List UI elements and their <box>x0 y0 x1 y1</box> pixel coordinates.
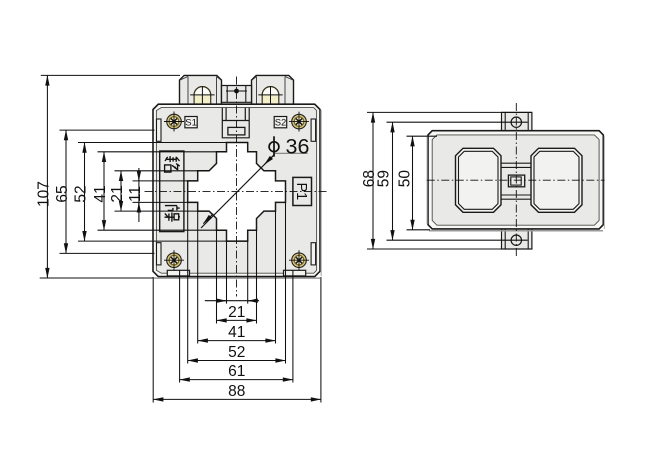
bridge between terminal blocks <box>222 86 252 105</box>
window octagon left <box>456 148 502 212</box>
svg-text:65: 65 <box>54 185 71 202</box>
S2 label box <box>274 117 287 128</box>
side body inner face <box>432 135 599 225</box>
side ext 50 top <box>407 135 438 137</box>
P1 label box <box>293 177 312 205</box>
svg-text:52: 52 <box>228 344 245 361</box>
dim line 11 left with outside arrows <box>138 168 140 222</box>
side ext 50 bottom <box>407 229 431 231</box>
terminal block left <box>180 75 222 104</box>
dim line 65 <box>65 130 67 253</box>
side ext 59 bottom <box>387 239 528 241</box>
main body outline <box>153 104 320 276</box>
SIDE VIEW <box>427 103 605 258</box>
ext line 65 top <box>60 129 155 131</box>
body right shadow <box>320 110 322 276</box>
phi symbol <box>269 136 279 156</box>
S1 label box <box>185 117 197 128</box>
side ext 68 bottom <box>367 248 532 250</box>
corner screw bottom-left <box>164 250 184 270</box>
svg-text:S2: S2 <box>275 118 287 129</box>
svg-text:41: 41 <box>92 185 109 202</box>
terminal arch screw left <box>190 86 214 104</box>
vertical ext 11 right <box>247 241 249 304</box>
DIMENSIONS <box>40 75 532 402</box>
dim line 41 bottom <box>198 340 276 342</box>
corner screw top-right <box>289 112 309 132</box>
dim line 21 left <box>120 171 122 211</box>
ext line 52 top <box>78 142 248 144</box>
svg-text:41: 41 <box>228 324 245 341</box>
mounting ear top <box>502 112 532 130</box>
vertical ext 41 right <box>275 211 277 343</box>
stepped center hole <box>188 143 286 242</box>
ext line 11 top <box>133 180 198 182</box>
DIMENSION TEXTS <box>35 135 413 400</box>
bottom mounting slot left <box>167 270 189 276</box>
vertical ext 52 left <box>187 202 189 363</box>
vertical ext 21 left <box>216 230 218 323</box>
svg-text:21: 21 <box>109 185 126 202</box>
side slot tab top-left <box>157 119 162 141</box>
bottom mounting slot right <box>284 270 306 276</box>
ear hole bottom <box>511 235 521 245</box>
ext line 107 top <box>41 74 180 76</box>
dim line 59 <box>392 122 394 240</box>
FRONT VIEW <box>145 75 327 296</box>
side body outline <box>428 131 603 229</box>
dim line 68 <box>372 112 374 249</box>
svg-text:21: 21 <box>228 304 245 321</box>
dim line 50 <box>412 136 414 230</box>
ext line 21 top <box>115 170 210 172</box>
mounting ear bottom <box>502 229 532 249</box>
ext line 52 bottom <box>78 240 248 242</box>
side body bottom shadow <box>429 230 603 232</box>
ext line 21 bottom <box>115 210 210 212</box>
phi36 underline <box>274 152 307 154</box>
nameplate character pai <box>165 206 180 222</box>
dim line 11 bottom with outside arrows <box>205 300 259 302</box>
body bottom shadow <box>154 277 320 279</box>
front vertical centerline <box>236 77 238 297</box>
ext line 107 bottom <box>40 277 154 279</box>
terminal arch screw right <box>258 86 282 104</box>
svg-text:50: 50 <box>397 170 414 188</box>
bridge center dot <box>234 89 239 94</box>
bobbin connector lines <box>501 163 531 199</box>
side slot tab top-right <box>311 119 316 141</box>
dim line 61 bottom <box>180 379 293 381</box>
side slot tab bottom-left <box>157 243 162 265</box>
vertical ext 61 right <box>292 271 294 383</box>
vertical ext 88 right <box>320 277 322 403</box>
center terminal small rect <box>508 175 524 187</box>
dim line 52 left <box>84 143 86 242</box>
corner screw bottom-right <box>289 250 309 270</box>
vertical ext 88 left <box>152 277 154 403</box>
ear hole top <box>511 117 521 127</box>
dim line 88 bottom <box>153 398 321 400</box>
vertical ext 21 right <box>256 230 258 323</box>
nameplate character ming <box>165 156 180 172</box>
front horizontal centerline <box>145 191 327 193</box>
side horizontal centerline <box>427 179 605 181</box>
svg-text:11: 11 <box>127 186 144 202</box>
ext line 65 bottom <box>60 252 155 254</box>
corner screw top-left <box>164 112 184 132</box>
side body right shadow <box>427 136 604 229</box>
vertical ext 11 left <box>226 241 228 304</box>
side slot tab bottom-right <box>311 243 316 265</box>
svg-text:36: 36 <box>286 135 310 159</box>
center top terminal feature <box>222 108 249 138</box>
svg-text:52: 52 <box>73 185 90 202</box>
ext line 41 bottom <box>98 229 227 231</box>
dim line 107 <box>46 75 48 278</box>
nameplate box <box>160 151 184 232</box>
svg-text:59: 59 <box>376 170 393 187</box>
bridge center mark line <box>226 90 247 92</box>
phi36 leader line <box>201 155 274 229</box>
svg-text:107: 107 <box>35 181 52 207</box>
dim line 41 left <box>103 152 105 230</box>
svg-text:61: 61 <box>228 363 245 380</box>
side ext 59 top <box>387 121 528 123</box>
dim line 52 bottom <box>188 360 286 362</box>
main body inner face <box>156 108 316 274</box>
dim line 21 bottom <box>217 319 257 321</box>
ext line 41 top <box>98 151 227 153</box>
vertical ext 41 left <box>197 211 199 343</box>
svg-text:S1: S1 <box>185 118 197 129</box>
terminal block right <box>252 75 294 104</box>
side ext 68 top <box>367 111 532 113</box>
vertical ext 52 right <box>285 202 287 363</box>
ext line 11 bottom <box>133 201 198 203</box>
side vertical centerline <box>515 103 517 258</box>
vertical ext 61 left <box>179 271 181 383</box>
svg-text:88: 88 <box>228 383 245 400</box>
window octagon right <box>531 148 582 212</box>
